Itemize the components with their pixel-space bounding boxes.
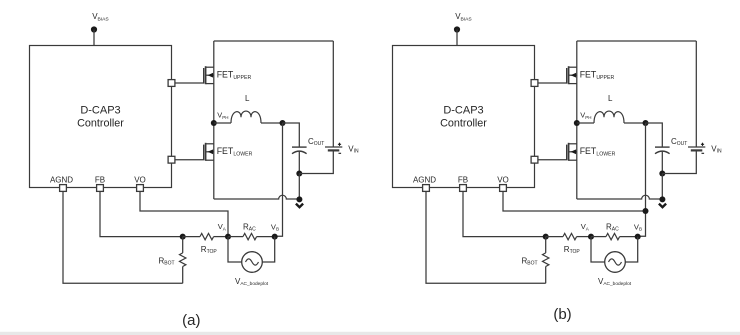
wire input rail top (214, 40, 333, 42)
svg-text:AGND: AGND (413, 175, 436, 184)
svg-text:FB: FB (95, 175, 105, 184)
pin DRVH (upper gate) (b) (531, 80, 538, 87)
wire upper gate (b) (538, 82, 567, 84)
pin FB (b) (458, 175, 468, 191)
wire junction to ground (b) (661, 174, 663, 200)
svg-text:VO: VO (497, 175, 509, 184)
controller U1 label (77, 105, 124, 130)
resistor R_BOT (159, 237, 186, 284)
svg-text:AGND: AGND (50, 175, 73, 184)
wire to C_OUT (b) (646, 123, 663, 147)
battery V_IN (b) (688, 41, 722, 155)
wire output to V_B (275, 123, 283, 236)
node C_OUT/V_IN junction (296, 171, 302, 177)
node C_OUT/V_IN junction (b) (659, 171, 665, 177)
resistor R_TOP (b) (546, 233, 591, 255)
capacitor C_OUT (b) (655, 137, 687, 174)
wire battery bottom (b) (662, 150, 696, 173)
node FB junction (180, 234, 186, 240)
wire half-bridge vertical (b) (576, 41, 578, 199)
node VO output junction (b) (643, 208, 649, 214)
transistor Q2 FET_LOWER (b) (567, 143, 616, 161)
node ground junction (b) (659, 196, 665, 202)
wire half-bridge vertical (213, 41, 215, 199)
node VOUT junction (280, 120, 286, 126)
wire upper gate (175, 82, 204, 84)
inductor L (214, 94, 283, 123)
svg-text:Controller: Controller (77, 118, 124, 130)
wire AGND return (b) (426, 191, 546, 283)
node V_B (b) (634, 222, 642, 239)
wire AGND return (63, 191, 183, 283)
wire VO to node V_A (140, 191, 228, 236)
controller U1 label (b) (440, 105, 487, 130)
wire FB to divider (100, 191, 183, 236)
node VOUT junction (b) (643, 120, 649, 126)
wire battery bottom (299, 150, 333, 173)
wire lower gate (175, 159, 204, 161)
node V_A (218, 222, 231, 240)
wire junction to ground (298, 174, 300, 200)
controller U1 D-CAP3 box (30, 46, 172, 188)
pin AGND (b) (413, 175, 436, 191)
node V_B (271, 222, 279, 239)
wire lower gate (b) (538, 159, 567, 161)
pin AGND (50, 175, 73, 191)
wire to C_OUT (283, 123, 300, 147)
svg-text:(b): (b) (553, 306, 571, 323)
pin FB (95, 175, 105, 191)
wire input rail top (b) (577, 40, 697, 42)
resistor R_AC (228, 222, 275, 240)
node V_PH (211, 110, 229, 126)
wire ground rail (214, 195, 300, 199)
ac source V_AC_bodeplot (228, 237, 275, 288)
wire output to V_B (b) (638, 123, 646, 236)
pin DRVL (lower gate) (168, 156, 175, 163)
wire VO to output node (b) (503, 191, 646, 211)
svg-text:L: L (608, 94, 613, 103)
pin VO (b) (497, 175, 509, 191)
wire FB to divider (b) (463, 191, 546, 236)
node V_PH (b) (574, 110, 592, 126)
svg-text:VO: VO (134, 175, 146, 184)
svg-text:(a): (a) (182, 312, 200, 329)
wire ground rail (b) (577, 195, 663, 199)
controller U1 D-CAP3 box (b) (393, 46, 535, 188)
svg-text:FB: FB (458, 175, 468, 184)
bottom border band (0, 332, 740, 335)
resistor R_BOT (b) (522, 237, 549, 284)
node V_A (b) (581, 222, 594, 240)
svg-text:D-CAP3: D-CAP3 (80, 105, 120, 117)
resistor R_AC (b) (591, 222, 638, 240)
svg-text:Controller: Controller (440, 118, 487, 130)
node ground junction (296, 196, 302, 202)
ground (b) (659, 204, 666, 208)
ac source V_AC_bodeplot (b) (591, 237, 638, 288)
node V_BIAS (91, 12, 110, 46)
pin DRVL (lower gate) (b) (531, 156, 538, 163)
transistor Q2 FET_LOWER (204, 143, 253, 161)
pin VO (134, 175, 146, 191)
transistor Q1 FET_UPPER (204, 66, 252, 84)
pin DRVH (upper gate) (168, 80, 175, 87)
inductor L (b) (577, 94, 646, 123)
resistor R_TOP (183, 233, 228, 255)
capacitor C_OUT (292, 137, 324, 174)
node V_BIAS (b) (454, 12, 473, 46)
svg-text:D-CAP3: D-CAP3 (443, 105, 483, 117)
battery V_IN (325, 41, 359, 155)
ground (296, 204, 303, 208)
svg-text:L: L (245, 94, 250, 103)
node FB junction (b) (543, 234, 549, 240)
transistor Q1 FET_UPPER (b) (567, 66, 615, 84)
